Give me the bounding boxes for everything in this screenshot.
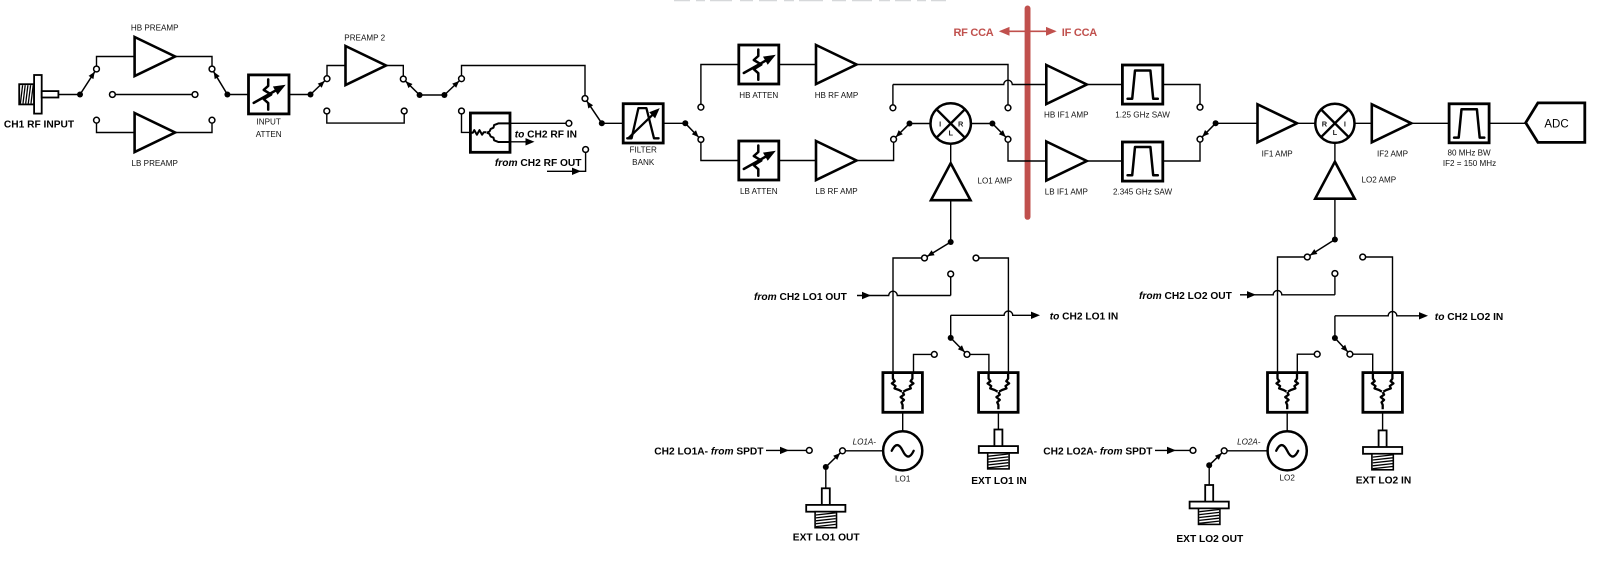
switch arm LO1 ext select <box>951 338 965 352</box>
svg-text:I: I <box>939 120 941 129</box>
terminal filter from top <box>582 96 588 102</box>
wire LO2 to SPDT <box>1227 450 1267 452</box>
terminal LO1 right <box>973 255 979 261</box>
terminal coupler tap <box>459 108 465 114</box>
svg-text:RF CCA: RF CCA <box>953 27 993 39</box>
connector EXT LO2 OUT <box>1205 485 1213 502</box>
amplifier LO2 AMP <box>1315 162 1355 199</box>
switch arm LO1 source select <box>927 242 950 256</box>
mixer U1 first mixer <box>931 103 971 143</box>
wire to CH2 LO1 IN vertical <box>950 315 952 338</box>
filter 1.25 GHz SAW box <box>1122 65 1162 104</box>
svg-text:HB RF AMP: HB RF AMP <box>815 91 859 100</box>
terminal preamp2 bypass left <box>324 108 330 114</box>
wire node E up and over to filter select <box>462 66 586 99</box>
wire HB atten to HB RF amp <box>779 64 816 66</box>
switch arm node E to top path <box>444 81 459 95</box>
wire mixer2 to IF2 amp <box>1354 122 1372 124</box>
filter 80 MHz BW box <box>1449 104 1489 143</box>
svg-text:R: R <box>1322 119 1328 128</box>
svg-text:EXT LO2 OUT: EXT LO2 OUT <box>1176 534 1244 545</box>
wire LO1 right throw down to coupler2 <box>976 258 1008 373</box>
svg-text:CH2 LO2A- from SPDT: CH2 LO2A- from SPDT <box>1043 447 1153 458</box>
wire coupler4 to EXT LO2 IN <box>1382 412 1384 430</box>
terminal HB preamp in <box>94 66 100 72</box>
amplifier HB RF AMP <box>816 45 857 84</box>
switch arm HB preamp out <box>214 72 228 95</box>
flow arrow from CH2 LO2 OUT <box>1247 291 1256 298</box>
wire IF1 amp to mixer2 <box>1297 122 1316 124</box>
svg-text:80 MHz BW: 80 MHz BW <box>1448 148 1492 157</box>
decorative faint top edge marks <box>674 0 946 2</box>
wire IF select to IF1 amp <box>1216 122 1258 124</box>
coupler LO2 left <box>1268 373 1308 413</box>
wire LO2 lower-left throw to coupler3 <box>1297 354 1317 372</box>
wire input atten to node C <box>290 94 311 96</box>
wire CH2 LO2A- input <box>1155 449 1190 451</box>
terminal IF lower <box>1197 136 1203 142</box>
wire mixer1 left input <box>910 123 932 125</box>
wire preamp2 input <box>327 66 346 79</box>
junction node J IF select pole <box>1213 120 1219 126</box>
connector CH1 RF INPUT <box>19 84 34 104</box>
switch arm band select <box>685 123 698 137</box>
coupler LO2 right <box>1363 373 1403 413</box>
wire LO1 lower-right throw to coupler2 <box>967 354 989 372</box>
terminal LO2 lower-left <box>1314 351 1320 357</box>
terminal from CH2 RF OUT <box>583 147 589 153</box>
wire LB preamp input <box>97 120 135 132</box>
ADC block <box>1526 103 1585 142</box>
wire SPDT to EXT LO2 OUT <box>1208 465 1210 485</box>
amplifier LB PREAMP <box>135 113 176 152</box>
svg-text:LB RF AMP: LB RF AMP <box>815 187 857 196</box>
wire LB branch to LB atten <box>701 140 739 161</box>
terminal preamp2 bypass right <box>401 108 407 114</box>
wire LB preamp output <box>175 120 212 132</box>
wire SAW2 to IF select lower throw <box>1163 139 1200 161</box>
junction node L LO1 ext pole <box>948 335 954 341</box>
svg-text:LB PREAMP: LB PREAMP <box>132 159 178 168</box>
svg-text:PREAMP 2: PREAMP 2 <box>344 34 385 43</box>
RF CCA / IF CCA divider arrow <box>1001 30 1056 32</box>
coupler LO1 right <box>979 373 1019 413</box>
junction node P LO2 SPDT pole <box>1206 462 1212 468</box>
svg-text:EXT LO2 IN: EXT LO2 IN <box>1356 476 1411 487</box>
amplifier LB RF AMP <box>816 141 857 180</box>
junction node E splitter tap <box>441 92 447 98</box>
junction node H mixer1 in pole <box>907 121 913 127</box>
svg-text:1.25 GHz SAW: 1.25 GHz SAW <box>1115 111 1170 120</box>
wire HB branch to HB atten <box>701 65 739 108</box>
oscillator LO2 <box>1268 431 1307 470</box>
svg-text:IF2 = 150 MHz: IF2 = 150 MHz <box>1443 159 1496 168</box>
terminal LO1 SPDT in <box>806 448 812 454</box>
svg-text:HB ATTEN: HB ATTEN <box>739 91 778 100</box>
wire from CH2 LO2 OUT stub <box>1334 277 1336 295</box>
wire LB IF1 amp to SAW2 <box>1086 160 1122 162</box>
svg-text:I: I <box>1344 119 1346 128</box>
svg-text:LB ATTEN: LB ATTEN <box>740 187 778 196</box>
connector EXT LO1 IN <box>994 430 1002 447</box>
svg-text:CH2 LO1A- from SPDT: CH2 LO1A- from SPDT <box>654 447 764 458</box>
wire bypass path 1 <box>112 94 195 96</box>
svg-text:LO1A-: LO1A- <box>853 437 877 446</box>
flow arrow to CH2 LO1 IN <box>1031 312 1040 319</box>
terminal top path <box>459 76 465 82</box>
switch arm LO2 SPDT <box>1209 453 1222 465</box>
svg-text:R: R <box>958 120 964 129</box>
filter 2.345 GHz SAW box <box>1122 142 1162 181</box>
svg-text:ATTEN: ATTEN <box>256 130 282 139</box>
terminal LO1 lower-right <box>964 352 970 358</box>
svg-text:BANK: BANK <box>632 158 655 167</box>
wire mixer1 lower-right throw to LB IF1 amp <box>1008 139 1046 161</box>
junction node A input <box>77 92 83 98</box>
svg-text:EXT LO1 IN: EXT LO1 IN <box>971 476 1026 487</box>
terminal bypass right <box>192 92 198 98</box>
terminal mixer1 UL <box>890 105 896 111</box>
wire LO2 amp to node H <box>1334 199 1336 240</box>
filter FILTER BANK box <box>623 104 663 143</box>
svg-text:CH1 RF INPUT: CH1 RF INPUT <box>4 119 75 130</box>
wire LO1 left throw down to coupler1 <box>893 258 925 373</box>
terminal LO2 left <box>1304 254 1310 260</box>
svg-text:2.345 GHz SAW: 2.345 GHz SAW <box>1113 188 1172 197</box>
svg-text:HB PREAMP: HB PREAMP <box>131 24 179 33</box>
wire HB IF1 amp to SAW1 <box>1086 84 1122 86</box>
wire from CH2 RF OUT <box>547 152 586 171</box>
wire coupler2 to EXT LO1 IN <box>997 412 999 429</box>
flow arrow to CH2 LO2 IN <box>1419 312 1428 319</box>
wire LB atten to LB RF amp <box>779 160 816 162</box>
wire LO1 to SPDT <box>846 450 883 452</box>
terminal LO1 lower-left <box>931 352 937 358</box>
junction node F filter select pole <box>599 120 605 126</box>
wire LO1 lower-left throw to coupler1 <box>914 354 935 372</box>
oscillator LO1 <box>883 431 922 470</box>
amplifier IF1 AMP <box>1258 104 1298 142</box>
flow arrow CH2 LO2A- <box>1167 447 1176 454</box>
attenuator INPUT ATTEN box <box>249 75 290 114</box>
wire coupler3 to LO2 <box>1286 412 1288 431</box>
wire HB preamp input <box>97 57 135 70</box>
svg-text:LO2A-: LO2A- <box>1237 437 1261 446</box>
junction node K LO1 select pole <box>948 239 954 245</box>
terminal LO1 center <box>948 271 954 277</box>
terminal preamp2 out <box>400 76 406 82</box>
terminal preamp2 in <box>324 76 330 82</box>
wire LB RF amp to mixer1 left throw <box>856 139 894 160</box>
wire CH2 LO1A- input <box>766 449 806 451</box>
wire SAW1 to IF select upper throw <box>1163 85 1200 108</box>
junction node N LO2 select pole <box>1332 237 1338 243</box>
mixer U2 second mixer <box>1315 104 1354 143</box>
wire from CH2 LO2 OUT (hop over coupler3 line) <box>1240 290 1335 294</box>
flow arrow from CH2 RF OUT <box>572 168 581 175</box>
flow arrow CH2 LO1A- <box>780 447 789 454</box>
junction node O LO2 ext pole <box>1332 335 1338 341</box>
terminal LB preamp in <box>94 117 100 123</box>
wire SPDT to EXT LO1 OUT <box>825 467 827 488</box>
terminal LO2 center <box>1332 271 1338 277</box>
wire IF2 amp to 80MHz filter <box>1411 122 1449 124</box>
terminal IF upper <box>1197 104 1203 110</box>
terminal HB preamp out <box>209 66 215 72</box>
svg-text:IF CCA: IF CCA <box>1062 27 1097 39</box>
terminal LO2 SPDT in <box>1190 448 1196 454</box>
switch arm mixer1 input select <box>896 124 910 138</box>
junction node I mixer1 out pole <box>989 121 995 127</box>
amplifier HB IF1 AMP <box>1046 65 1087 104</box>
svg-text:to CH2 LO1 IN: to CH2 LO1 IN <box>1050 312 1119 323</box>
amplifier LB IF1 AMP <box>1046 142 1087 181</box>
wire preamp2 output <box>386 66 403 80</box>
junction node G band select pole <box>682 120 688 126</box>
wire mixer2 LO port <box>1334 143 1336 162</box>
coupler CH2 RF splitter <box>470 113 510 152</box>
wire LO1 amp to node G <box>950 200 952 242</box>
wire 80MHz filter to ADC <box>1489 122 1526 124</box>
RF CCA / IF CCA divider bar <box>1025 6 1031 220</box>
terminal LO2 right <box>1360 254 1366 260</box>
svg-text:from CH2 LO2 OUT: from CH2 LO2 OUT <box>1139 291 1233 302</box>
terminal LO2 lower-right <box>1347 351 1353 357</box>
switch arm IF select <box>1202 123 1215 137</box>
wire from CH2 LO1 OUT stub <box>950 274 952 296</box>
switch arm LO1 SPDT <box>826 453 840 467</box>
wire LO2 left throw down to coupler3 <box>1278 257 1308 373</box>
terminal mixer1 LL <box>891 136 897 142</box>
attenuator LB ATTEN box <box>739 141 779 180</box>
switch arm mixer1 output select <box>992 124 1005 138</box>
amplifier IF2 AMP <box>1372 104 1412 142</box>
wire to CH2 LO2 IN (hop over coupler4 line) <box>1335 311 1419 315</box>
svg-text:LO1: LO1 <box>895 475 911 484</box>
wire LO2 lower-right throw to coupler4 <box>1350 354 1373 372</box>
terminal mixer1 UR <box>1005 105 1011 111</box>
svg-text:LO2: LO2 <box>1280 474 1296 483</box>
wire to CH2 LO2 IN vertical <box>1334 316 1336 338</box>
switch arm LO2 ext select <box>1335 338 1348 352</box>
wire coupler lower output to CH2 RF IN <box>510 141 527 143</box>
terminal mixer1 LR <box>1005 136 1011 142</box>
svg-text:to CH2 RF IN: to CH2 RF IN <box>515 129 577 140</box>
terminal coupler out <box>566 120 572 126</box>
svg-text:from CH2 LO1 OUT: from CH2 LO1 OUT <box>754 292 848 303</box>
wire preamp2 bypass loop <box>327 111 404 123</box>
amplifier PREAMP 2 <box>346 46 387 85</box>
svg-text:ADC: ADC <box>1544 119 1568 131</box>
wire mixer1 upper-left throw to HB IF1 amp (hop over HB wire) <box>892 85 894 108</box>
terminal LB preamp out <box>209 117 215 123</box>
wire mixer1 LO port <box>950 144 952 164</box>
switch arm preamp2 out <box>406 81 420 95</box>
wire from CH2 LO1 OUT (hop over coupler1 line) <box>857 291 951 295</box>
junction node B preamp1 out <box>224 92 230 98</box>
terminal LO2 SPDT osc <box>1221 448 1227 454</box>
junction node C atten out <box>308 92 314 98</box>
terminal HB branch <box>698 104 704 110</box>
terminal LO1 left <box>922 255 928 261</box>
wire coupler1 to LO1 <box>902 412 904 431</box>
wire HB RF amp over to mixer1 right throw <box>856 65 1008 108</box>
svg-text:LO2 AMP: LO2 AMP <box>1362 175 1397 184</box>
switch arm input select <box>80 72 95 95</box>
wire to CH2 coupler input <box>462 111 471 132</box>
wire filter select to filter bank <box>602 122 624 124</box>
wire node D to node E <box>420 94 445 96</box>
terminal LO1 SPDT osc <box>840 448 846 454</box>
coupler LO1 left <box>883 373 923 413</box>
wire node B to input atten <box>227 94 249 96</box>
svg-text:HB IF1 AMP: HB IF1 AMP <box>1044 111 1089 120</box>
svg-text:to CH2 LO2 IN: to CH2 LO2 IN <box>1435 312 1504 323</box>
wire mixer1 right output <box>971 123 993 125</box>
flow arrow from CH2 LO1 OUT <box>862 292 871 299</box>
flow arrow to CH2 RF IN <box>526 138 535 145</box>
wire LO2 right throw down to coupler4 <box>1363 257 1393 373</box>
wire HB preamp output <box>175 57 212 70</box>
junction node M LO1 SPDT pole <box>823 464 829 470</box>
svg-text:IF2 AMP: IF2 AMP <box>1377 150 1408 159</box>
wire to CH2 LO1 IN (hop over coupler2 line) <box>951 311 1031 315</box>
wire coupler upper output <box>510 122 566 124</box>
connector EXT LO1 OUT <box>822 488 830 505</box>
connector EXT LO2 IN <box>1379 430 1387 447</box>
svg-text:IF1 AMP: IF1 AMP <box>1262 150 1293 159</box>
switch arm preamp2 in <box>311 81 325 95</box>
wire connector to node A <box>59 94 81 96</box>
wire filter bank to node F <box>663 122 686 124</box>
svg-text:FILTER: FILTER <box>630 146 657 155</box>
svg-text:L: L <box>1333 128 1338 137</box>
svg-text:from CH2 RF OUT: from CH2 RF OUT <box>495 158 582 169</box>
svg-text:LO1 AMP: LO1 AMP <box>978 177 1013 186</box>
svg-text:LB IF1 AMP: LB IF1 AMP <box>1045 188 1088 197</box>
amplifier HB PREAMP <box>135 37 176 76</box>
amplifier LO1 AMP <box>931 163 971 200</box>
terminal bypass left <box>110 92 116 98</box>
terminal LB branch <box>698 137 704 143</box>
switch arm LO2 source select <box>1310 240 1335 256</box>
svg-text:L: L <box>948 128 953 137</box>
junction node D preamp2 out <box>417 92 423 98</box>
attenuator HB ATTEN box <box>739 45 779 84</box>
svg-text:INPUT: INPUT <box>257 118 281 127</box>
svg-text:EXT LO1 OUT: EXT LO1 OUT <box>793 533 861 544</box>
switch arm filter select <box>587 101 602 123</box>
